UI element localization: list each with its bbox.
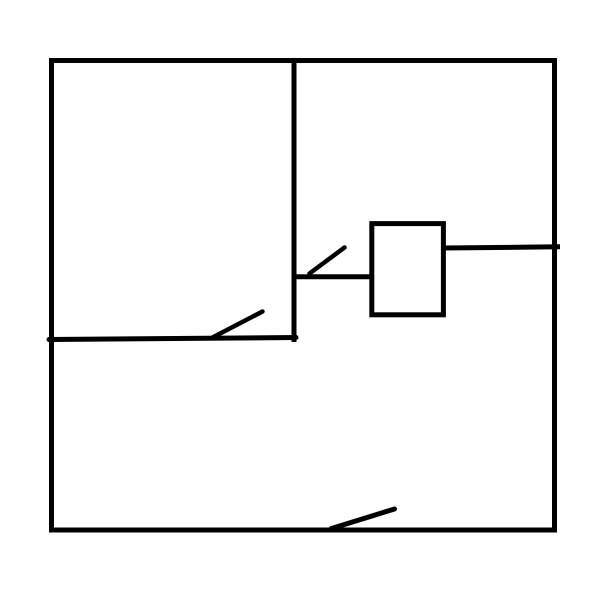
closet box xyxy=(372,224,444,315)
interior horizontal wall xyxy=(49,338,296,340)
interior vertical wall xyxy=(292,59,297,342)
door swing upper xyxy=(310,248,345,274)
door swing bottom xyxy=(332,509,395,529)
hallway wall segment xyxy=(294,274,372,279)
door swing middle xyxy=(213,312,263,338)
right wall segment xyxy=(443,247,560,248)
outer wall xyxy=(52,61,555,531)
